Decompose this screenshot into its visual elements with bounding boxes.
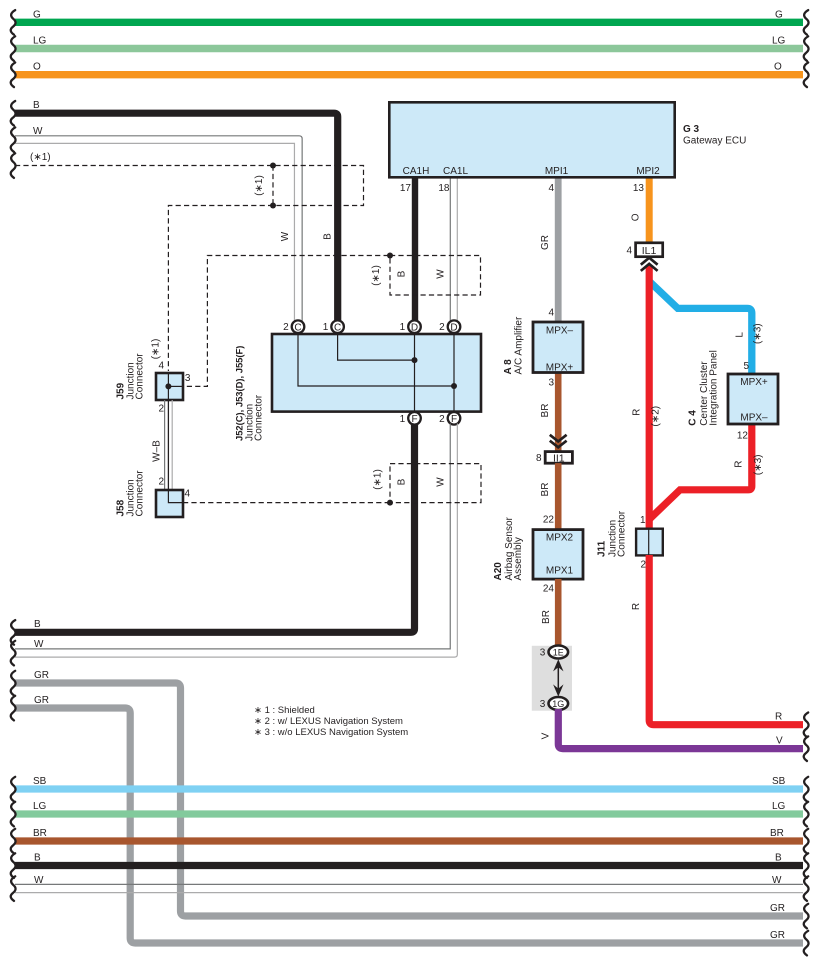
svg-text:(∗1): (∗1) bbox=[151, 339, 162, 360]
wire R main (IL1 down to J11 pin 1) bbox=[631, 265, 661, 530]
svg-text:4: 4 bbox=[158, 361, 164, 372]
svg-text:4: 4 bbox=[548, 308, 554, 319]
svg-text:W: W bbox=[436, 269, 447, 279]
arrow between 1E and 1G bbox=[553, 659, 563, 696]
junction connector J59 bbox=[116, 339, 184, 400]
svg-text:(∗1): (∗1) bbox=[30, 152, 51, 163]
svg-text:F: F bbox=[411, 414, 417, 425]
svg-text:GR: GR bbox=[770, 930, 785, 941]
svg-text:D: D bbox=[450, 323, 457, 334]
svg-text:W: W bbox=[34, 875, 44, 886]
connector II1 bbox=[536, 452, 572, 465]
svg-text:BR: BR bbox=[540, 404, 551, 418]
svg-text:2: 2 bbox=[158, 477, 164, 488]
wire W-B (J59 pin 2 to J58 pin 2) bbox=[152, 400, 173, 490]
wire B (junction F1 to left edge) bbox=[11, 424, 415, 645]
svg-text:4: 4 bbox=[626, 246, 632, 257]
svg-text:(∗1): (∗1) bbox=[371, 265, 382, 286]
svg-text:J11: J11 bbox=[597, 540, 608, 557]
node 1E bbox=[540, 646, 568, 659]
svg-text:G: G bbox=[33, 10, 41, 21]
svg-text:MPI2: MPI2 bbox=[636, 166, 660, 177]
svg-text:1: 1 bbox=[323, 322, 329, 333]
svg-text:R: R bbox=[775, 712, 782, 723]
wire W (left top, to junction C2) bbox=[11, 126, 302, 322]
wire B (left top, to junction C1) bbox=[11, 100, 338, 322]
svg-text:SB: SB bbox=[772, 776, 786, 787]
junction connector J58 bbox=[116, 470, 191, 517]
connector shade box 1E/1G bbox=[532, 646, 572, 711]
svg-text:5: 5 bbox=[743, 361, 749, 372]
svg-text:(∗1): (∗1) bbox=[254, 175, 265, 196]
wire R lower (J11 pin 2 to right edge) bbox=[631, 555, 809, 737]
center cluster integration panel C4 box bbox=[688, 350, 779, 426]
svg-text:24: 24 bbox=[543, 583, 555, 594]
shield dashed (*1) from left edge to J59 pin 4 bbox=[11, 152, 364, 371]
svg-text:L: L bbox=[735, 332, 746, 338]
svg-text:C: C bbox=[294, 323, 301, 334]
svg-text:(∗3): (∗3) bbox=[753, 454, 764, 475]
A/C amplifier A8 box bbox=[503, 316, 583, 374]
svg-text:MPX–: MPX– bbox=[740, 413, 768, 424]
svg-text:2: 2 bbox=[158, 403, 164, 414]
svg-text:O: O bbox=[33, 62, 41, 73]
svg-text:C 4: C 4 bbox=[688, 410, 699, 426]
svg-text:MPX1: MPX1 bbox=[546, 566, 574, 577]
svg-text:A 8: A 8 bbox=[503, 359, 514, 375]
svg-text:Gateway ECU: Gateway ECU bbox=[683, 136, 746, 147]
svg-text:G 3: G 3 bbox=[683, 124, 700, 135]
svg-text:BR: BR bbox=[770, 828, 784, 839]
svg-text:Connector: Connector bbox=[254, 394, 265, 441]
wire BR bus (bottom) bbox=[11, 828, 809, 853]
wire W bus (bottom) bbox=[11, 875, 809, 901]
wire LG bus (top) bbox=[11, 36, 809, 61]
svg-text:MPX+: MPX+ bbox=[546, 362, 574, 373]
svg-text:BR: BR bbox=[541, 610, 552, 624]
svg-text:W–B: W–B bbox=[152, 440, 163, 462]
svg-text:Connector: Connector bbox=[135, 353, 146, 400]
svg-text:3: 3 bbox=[540, 648, 546, 659]
svg-text:LG: LG bbox=[772, 36, 786, 47]
wire BR 1 (A/C amp pin 3 down to II1) bbox=[540, 372, 558, 452]
svg-text:W: W bbox=[280, 231, 291, 241]
svg-text:(∗2): (∗2) bbox=[650, 406, 661, 427]
chevron arrows up (R into IL1) bbox=[641, 258, 658, 271]
junction inner wire C2-D2 bbox=[298, 330, 457, 389]
wire G bus (top) bbox=[11, 10, 809, 35]
svg-text:2: 2 bbox=[640, 560, 646, 571]
svg-text:II1: II1 bbox=[553, 452, 565, 464]
wire B bus (bottom) bbox=[11, 853, 809, 878]
svg-text:R: R bbox=[631, 603, 642, 610]
svg-text:O: O bbox=[774, 62, 782, 73]
gateway ECU G3 box bbox=[389, 102, 746, 177]
shield dashed from J58 pin 4 to lower shield box bbox=[183, 502, 390, 504]
chevron arrows down (BR into II1) bbox=[550, 435, 567, 448]
svg-text:GR: GR bbox=[540, 235, 551, 250]
wire MPI2 O (gateway pin 13 to IL1) bbox=[630, 178, 649, 244]
svg-text:IL1: IL1 bbox=[642, 245, 657, 257]
svg-text:BR: BR bbox=[540, 483, 551, 497]
svg-text:MPX–: MPX– bbox=[546, 325, 574, 336]
svg-text:V: V bbox=[541, 732, 552, 739]
svg-text:∗ 2 : w/ LEXUS Navigation Syst: ∗ 2 : w/ LEXUS Navigation System bbox=[254, 716, 403, 727]
svg-text:B: B bbox=[397, 478, 408, 485]
svg-text:Connector: Connector bbox=[135, 470, 146, 517]
svg-text:4: 4 bbox=[548, 183, 554, 194]
svg-text:∗ 3 : w/o LEXUS Navigation Sys: ∗ 3 : w/o LEXUS Navigation System bbox=[254, 727, 408, 738]
wire R from C4 MPX- joining main R wire bbox=[650, 424, 764, 519]
svg-text:1: 1 bbox=[400, 414, 406, 425]
shield dashed box around CA1H/CA1L (upper) bbox=[371, 253, 481, 296]
airbag sensor assembly A20 box bbox=[493, 516, 583, 580]
svg-text:MPI1: MPI1 bbox=[545, 166, 569, 177]
svg-text:W: W bbox=[34, 639, 44, 650]
wire CA1H B (gateway pin 17 to junction D1) bbox=[397, 178, 416, 322]
svg-text:D: D bbox=[411, 323, 418, 334]
wire MPI1 GR (gateway pin 4 to A/C amplifier pin 4) bbox=[540, 178, 558, 322]
svg-text:1: 1 bbox=[400, 322, 406, 333]
node F2 bbox=[439, 412, 460, 425]
junction inner wire D2-F2 bbox=[453, 330, 455, 416]
svg-text:17: 17 bbox=[400, 183, 412, 194]
svg-text:8: 8 bbox=[536, 453, 542, 464]
node D2 bbox=[439, 320, 460, 333]
wire BR 2 (II1 to airbag sensor pin 22) bbox=[540, 463, 558, 530]
svg-text:18: 18 bbox=[438, 183, 450, 194]
svg-text:W: W bbox=[436, 477, 447, 487]
wire BR 3 (airbag sensor pin 24 to 1E) bbox=[541, 579, 558, 647]
svg-text:1E: 1E bbox=[553, 647, 564, 657]
svg-text:R: R bbox=[734, 461, 745, 468]
junction inner wire D1-F1 bbox=[414, 330, 416, 416]
svg-text:CA1L: CA1L bbox=[443, 166, 468, 177]
svg-text:B: B bbox=[34, 619, 41, 630]
svg-text:LG: LG bbox=[33, 36, 47, 47]
svg-text:LG: LG bbox=[33, 801, 47, 812]
svg-text:(∗3): (∗3) bbox=[753, 323, 764, 344]
node F1 bbox=[400, 412, 421, 425]
node C1 bbox=[323, 320, 344, 333]
svg-text:∗ 1 : Shielded: ∗ 1 : Shielded bbox=[254, 705, 315, 716]
svg-text:R: R bbox=[631, 409, 642, 416]
svg-text:1: 1 bbox=[640, 515, 646, 526]
legend notes bbox=[254, 705, 408, 738]
wire V (1G to right edge) bbox=[541, 709, 809, 761]
svg-text:13: 13 bbox=[633, 183, 645, 194]
svg-text:1G: 1G bbox=[552, 699, 564, 709]
svg-text:GR: GR bbox=[34, 695, 49, 706]
svg-text:C: C bbox=[334, 323, 341, 334]
svg-text:3: 3 bbox=[548, 377, 554, 388]
junction inner wire C1-D1 bbox=[338, 330, 418, 363]
svg-text:W: W bbox=[33, 126, 43, 137]
wire L (blue branch to center cluster MPX+) bbox=[650, 282, 764, 374]
wire O bus (top) bbox=[11, 62, 809, 88]
svg-text:2: 2 bbox=[283, 322, 289, 333]
shield jumper dashed segment with junction dots bbox=[254, 163, 276, 209]
node C2 bbox=[283, 320, 304, 333]
svg-text:Assembly: Assembly bbox=[513, 537, 524, 580]
junction connector J11 bbox=[597, 510, 663, 571]
svg-text:(∗1): (∗1) bbox=[373, 469, 384, 490]
svg-text:MPX2: MPX2 bbox=[546, 533, 574, 544]
wire SB bus (bottom) bbox=[11, 776, 809, 801]
svg-text:V: V bbox=[776, 736, 783, 747]
svg-text:MPX+: MPX+ bbox=[740, 377, 768, 388]
svg-text:2: 2 bbox=[439, 414, 445, 425]
wire GR 2 (left edge down to bottom bus) bbox=[11, 695, 809, 955]
svg-text:GR: GR bbox=[34, 670, 49, 681]
svg-text:CA1H: CA1H bbox=[403, 166, 430, 177]
svg-text:G: G bbox=[775, 10, 783, 21]
svg-text:B: B bbox=[397, 270, 408, 277]
svg-text:SB: SB bbox=[33, 776, 47, 787]
svg-text:LG: LG bbox=[772, 801, 786, 812]
svg-text:A/C Amplifier: A/C Amplifier bbox=[514, 316, 525, 374]
svg-text:12: 12 bbox=[737, 430, 749, 441]
svg-text:O: O bbox=[630, 213, 641, 221]
svg-text:2: 2 bbox=[439, 322, 445, 333]
node D1 bbox=[400, 320, 421, 333]
svg-text:22: 22 bbox=[543, 515, 555, 526]
svg-text:BR: BR bbox=[33, 828, 47, 839]
svg-text:B: B bbox=[323, 233, 334, 240]
svg-text:3: 3 bbox=[540, 699, 546, 710]
svg-text:Connector: Connector bbox=[617, 510, 628, 557]
junction connector J52(C),J53(D),J55(F) box bbox=[234, 334, 482, 441]
svg-text:B: B bbox=[775, 853, 782, 864]
svg-text:B: B bbox=[33, 100, 40, 111]
shield dashed from J59 pin 3 up and right to shield box bbox=[170, 256, 388, 387]
connector IL1 bbox=[626, 243, 662, 257]
svg-text:GR: GR bbox=[770, 903, 785, 914]
wire CA1L W (gateway pin 18 to junction D2) bbox=[436, 178, 458, 322]
svg-text:4: 4 bbox=[185, 489, 191, 500]
svg-text:W: W bbox=[772, 875, 782, 886]
wire LG bus (bottom) bbox=[11, 801, 809, 826]
shield dashed box around B/W (lower) bbox=[373, 464, 482, 506]
svg-text:B: B bbox=[34, 853, 41, 864]
svg-text:A20: A20 bbox=[493, 562, 504, 581]
svg-text:Integration Panel: Integration Panel bbox=[709, 350, 720, 426]
svg-text:3: 3 bbox=[185, 373, 191, 384]
wire GR 1 (left edge down to lower right bus) bbox=[11, 670, 809, 928]
svg-text:J52(C), J53(D), J55(F): J52(C), J53(D), J55(F) bbox=[234, 346, 245, 441]
node 1G bbox=[540, 697, 568, 710]
svg-text:F: F bbox=[451, 414, 457, 425]
wire W (junction F2 to left edge) bbox=[11, 424, 458, 666]
